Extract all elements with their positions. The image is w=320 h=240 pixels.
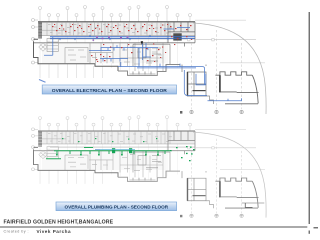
base building [32, 6, 267, 115]
svg-text:Vivek Parcha: Vivek Parcha [37, 229, 72, 234]
black triangle marker [141, 41, 144, 45]
small blue diag under building [39, 80, 46, 83]
svg-text:FAIRFIELD GOLDEN HEIGHT,BANGAL: FAIRFIELD GOLDEN HEIGHT,BANGALORE [4, 219, 114, 225]
purple specks [93, 36, 129, 40]
plumbing green annotations [46, 138, 264, 208]
svg-text:OVERALL ELECTRICAL PLAN – SECO: OVERALL ELECTRICAL PLAN – SECOND FLOOR [52, 88, 167, 94]
wiring network [44, 28, 242, 101]
svg-text:Created by :: Created by : [4, 229, 30, 233]
dark service block right end [173, 33, 181, 40]
red specks lower rooms [91, 36, 192, 62]
corridor blue band [50, 35, 195, 40]
red specks upper band [52, 24, 192, 32]
svg-text:OVERALL PLUMBING PLAN - SECOND: OVERALL PLUMBING PLAN - SECOND FLOOR [65, 205, 169, 210]
